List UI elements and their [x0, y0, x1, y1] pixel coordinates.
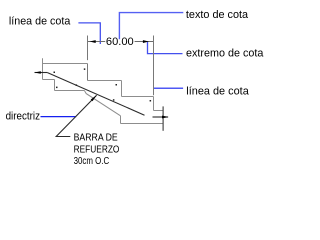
- left edge vertical: [42, 58, 44, 79]
- rebar right tail 2: [153, 116, 169, 118]
- aggregate dot 5: [150, 100, 152, 102]
- stair outline: [43, 58, 163, 123]
- rebar diagonal: [47, 73, 144, 116]
- tread 3: [122, 96, 154, 98]
- aggregate dot 2: [84, 68, 86, 70]
- rebar left tail: [35, 72, 48, 74]
- leader (blue) from right "linea de cota" to extension line: [154, 87, 183, 89]
- leader (blue) from "extremo de cota" to arrowhead: [148, 42, 183, 54]
- svg-text:60.00: 60.00: [106, 36, 134, 48]
- svg-text:texto de cota: texto de cota: [186, 9, 249, 21]
- dimension line (right segment): [135, 41, 154, 43]
- svg-text:línea de cota: línea de cota: [9, 15, 71, 27]
- rebar arrowhead left: [34, 71, 41, 74]
- black leader line (directriz) from BARRA text to rebar: [56, 95, 96, 136]
- aggregate dot 6: [113, 99, 115, 101]
- arrowhead left (extremo de cota): [90, 40, 96, 43]
- svg-text:30cm O.C: 30cm O.C: [74, 156, 110, 167]
- bottom slab line: [121, 123, 163, 125]
- riser 2: [121, 81, 123, 97]
- soffit horizontal (middle): [55, 90, 85, 92]
- svg-text:directriz: directriz: [6, 111, 41, 123]
- right break edge vertical (dark): [162, 106, 164, 130]
- svg-text:línea de cota: línea de cota: [186, 86, 249, 98]
- soffit horizontal (left): [43, 79, 55, 81]
- leader (blue) from "directriz" to the black leader line: [41, 116, 77, 118]
- tread 1: [43, 63, 88, 65]
- leader arrowhead: [91, 95, 97, 101]
- aggregate dot 1: [54, 72, 56, 74]
- aggregate dot 4: [116, 84, 118, 86]
- leader (blue) from "linea de cota" to dimension line: [78, 23, 100, 44]
- svg-text:REFUERZO: REFUERZO: [74, 144, 120, 155]
- tread 2: [88, 80, 122, 82]
- soffit diagonal: [84, 91, 120, 116]
- aggregate dot 7: [56, 87, 58, 89]
- rebar arrowhead right: [162, 116, 169, 119]
- leader (blue) from "texto de cota" to the text 60.00: [119, 13, 183, 40]
- riser 3: [153, 97, 155, 111]
- rebar bar (diagonal): [35, 73, 169, 118]
- arrowhead right (extremo de cota): [143, 40, 149, 43]
- soffit vertical: [54, 80, 56, 91]
- extension line right: [153, 36, 155, 96]
- soffit step vertical 2: [120, 116, 122, 124]
- svg-text:BARRA DE: BARRA DE: [74, 132, 118, 143]
- tread 4 (cut): [154, 110, 163, 112]
- extension line left (riser 1 part): [87, 64, 89, 81]
- aggregate dot 3: [76, 84, 78, 86]
- dimension line (left segment): [88, 41, 106, 43]
- extension line left (upper part, gap above tread 1): [87, 36, 89, 61]
- svg-text:extremo de cota: extremo de cota: [186, 48, 264, 60]
